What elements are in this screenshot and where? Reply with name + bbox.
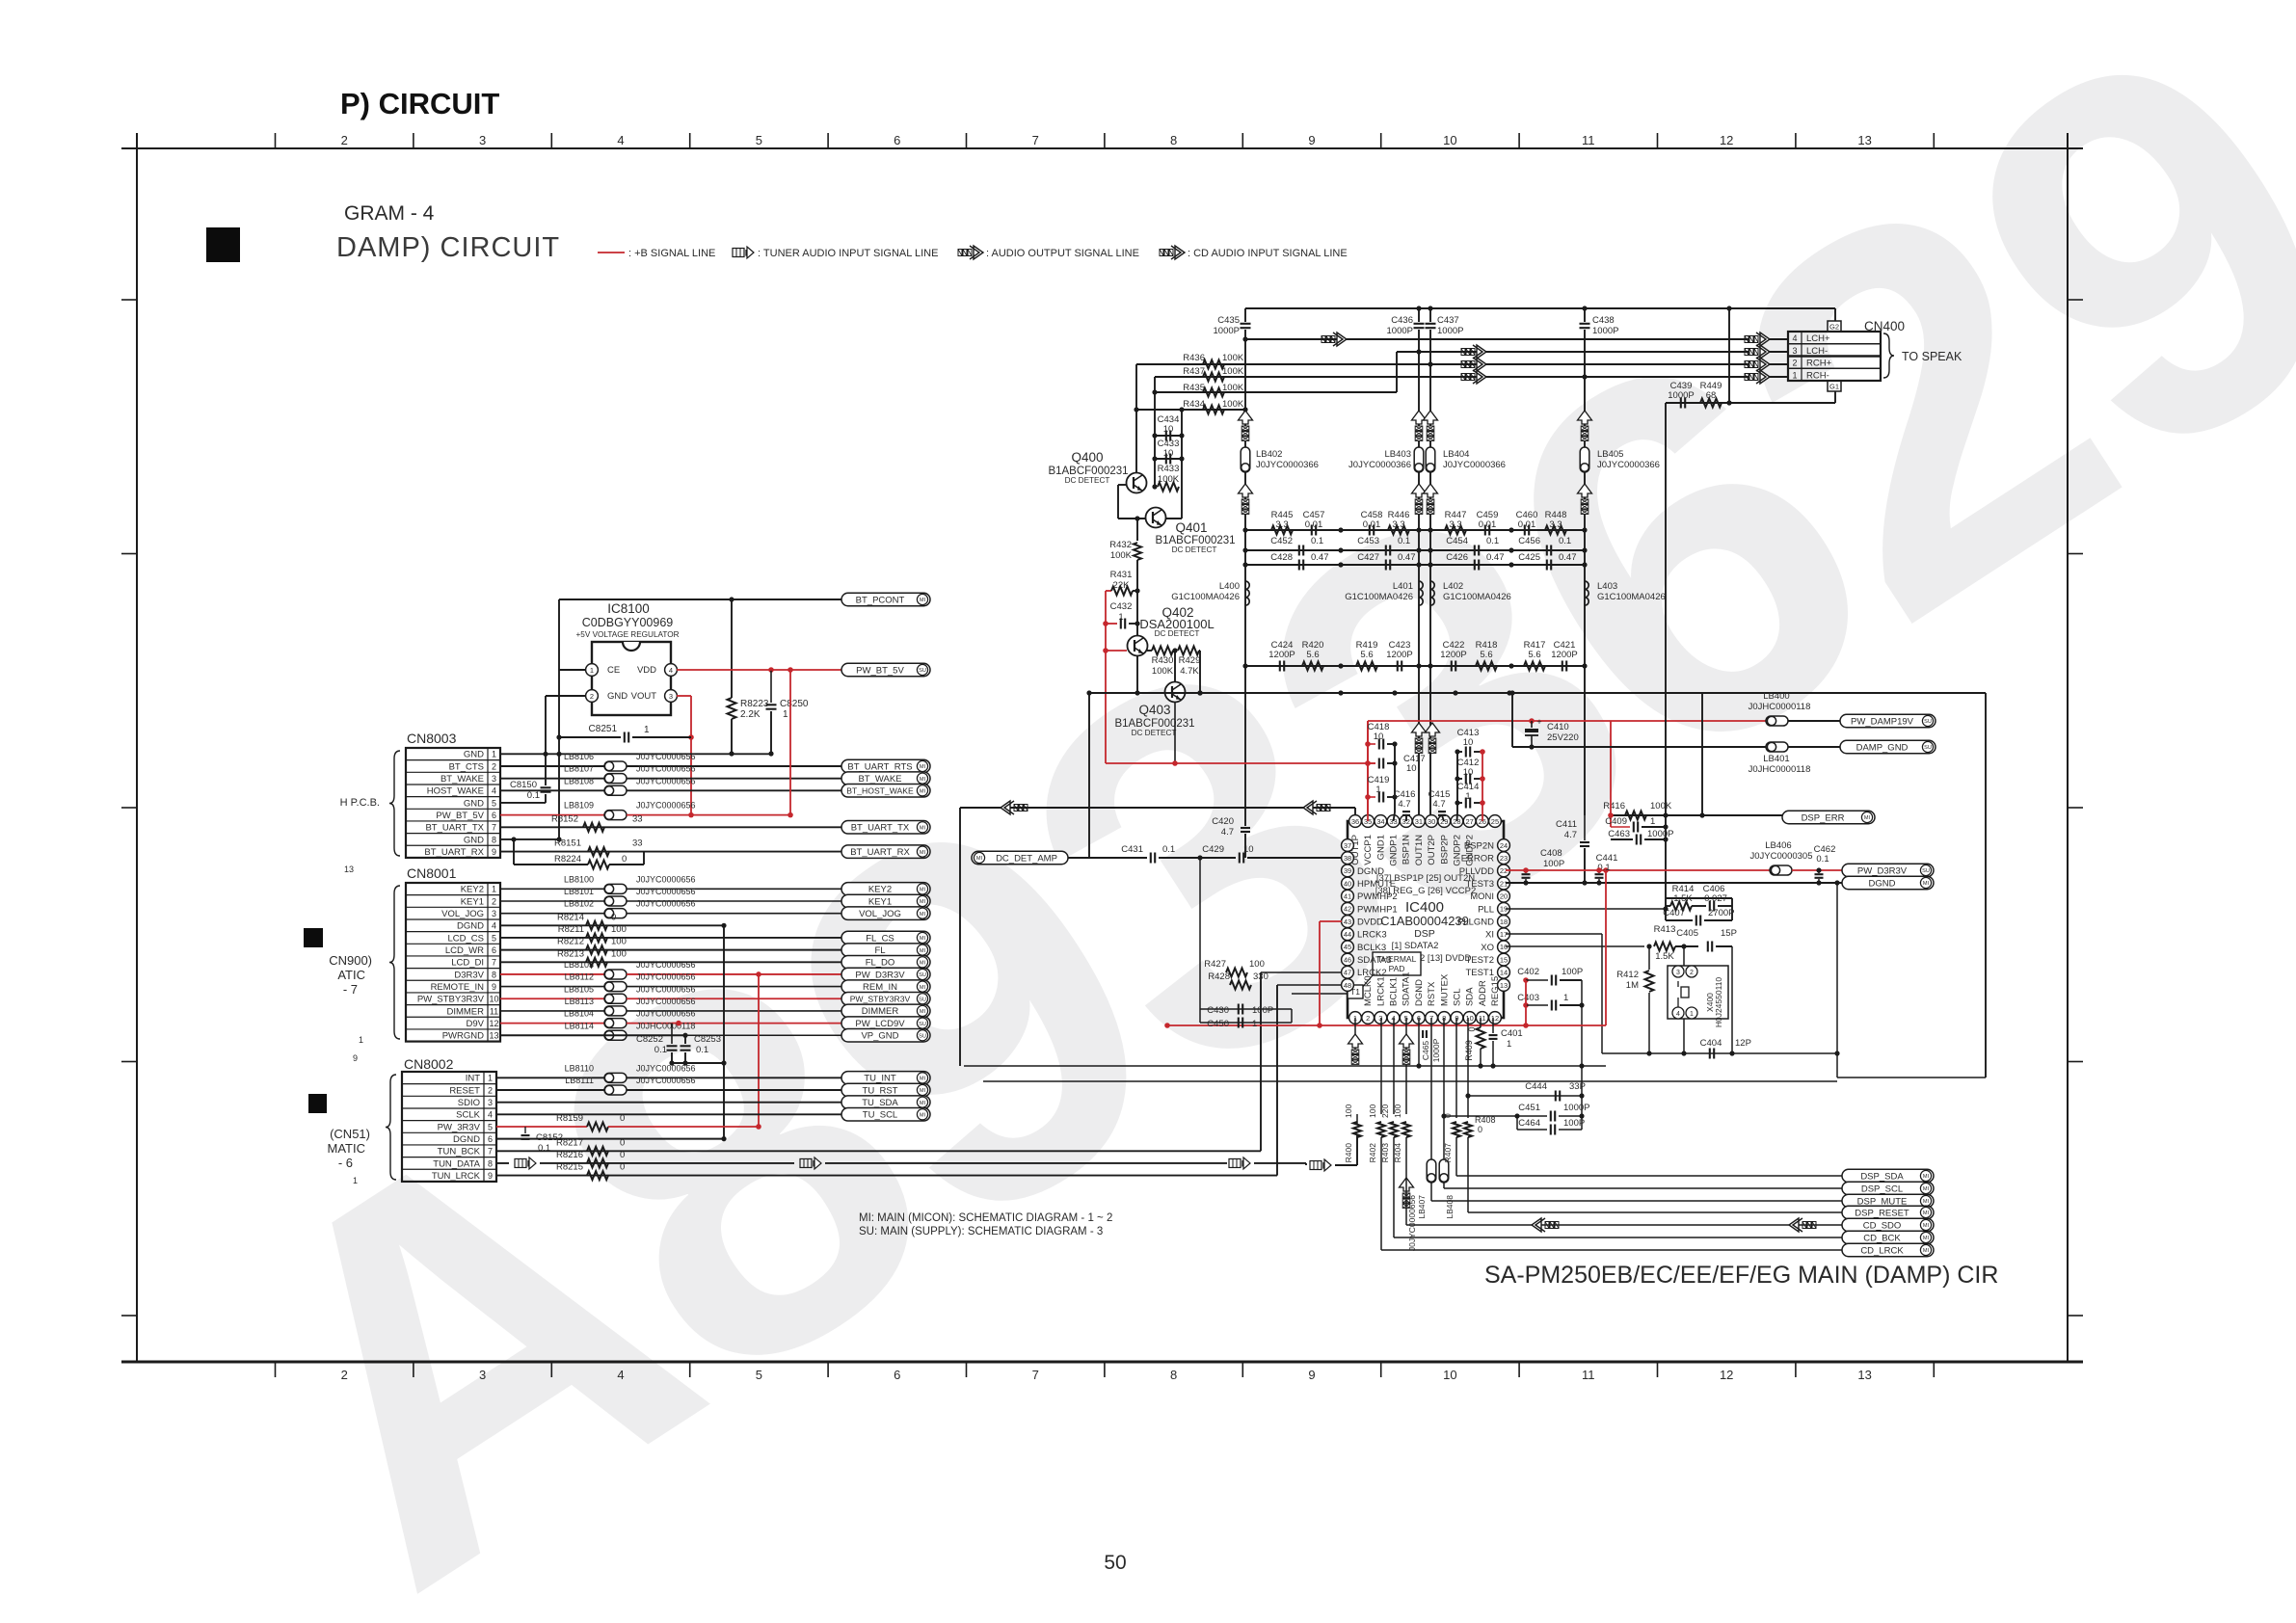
svg-text:DIMMER: DIMMER — [446, 1006, 484, 1017]
svg-text:0.01: 0.01 — [1518, 519, 1536, 530]
svg-text:0: 0 — [611, 912, 616, 922]
svg-text:J0JYC0000656: J0JYC0000656 — [636, 997, 696, 1006]
long bus y1122 — [983, 1080, 1837, 1082]
inductor LB402 — [1241, 447, 1250, 472]
gnd col x1512 — [1456, 752, 1458, 812]
svg-text:PW_STBY3R3V: PW_STBY3R3V — [417, 995, 485, 1005]
red junction D9V — [676, 1021, 681, 1026]
resistor R8224 0 — [513, 839, 515, 865]
svg-text:C403: C403 — [1517, 993, 1539, 1003]
svg-text:C435: C435 — [1217, 315, 1240, 326]
svg-text:C436: C436 — [1391, 315, 1413, 326]
svg-text:100P: 100P — [1562, 967, 1583, 977]
svg-text:3: 3 — [492, 774, 496, 784]
svg-text:100: 100 — [1368, 1104, 1377, 1118]
svg-text:100K: 100K — [1110, 550, 1133, 561]
svg-text:2: 2 — [492, 761, 496, 771]
svg-text:27: 27 — [1465, 817, 1473, 826]
svg-text:8: 8 — [1170, 133, 1177, 147]
svg-text:11: 11 — [1582, 1368, 1595, 1382]
capacitor C463 1000P — [1611, 838, 1633, 840]
svg-text:MI: MI — [920, 1009, 926, 1015]
svg-text:FL_CS: FL_CS — [866, 933, 894, 944]
svg-text:4.7K: 4.7K — [1180, 666, 1199, 677]
svg-text:0.47: 0.47 — [1559, 552, 1577, 563]
svg-text:J0JYC0000656: J0JYC0000656 — [636, 1009, 696, 1019]
tuner input icon mid — [800, 1158, 812, 1167]
resistor R402 100 — [1377, 1122, 1385, 1137]
wire CN400 G2 to bus — [1834, 308, 1836, 321]
svg-text:: AUDIO OUTPUT SIGNAL LINE: : AUDIO OUTPUT SIGNAL LINE — [986, 248, 1139, 259]
svg-text:0.1: 0.1 — [1559, 536, 1571, 546]
svg-text:40: 40 — [1344, 879, 1351, 888]
svg-text:HPMUTE: HPMUTE — [1357, 879, 1396, 890]
svg-text:FL: FL — [874, 945, 885, 956]
svg-text:20: 20 — [1500, 892, 1508, 901]
tuner input icon third — [1229, 1158, 1241, 1167]
svg-text:100: 100 — [1249, 959, 1265, 970]
svg-text:INT: INT — [466, 1074, 481, 1084]
audio arrows mid rows — [1461, 349, 1465, 356]
svg-text:TEST3: TEST3 — [1465, 879, 1494, 890]
svg-text:1: 1 — [1375, 785, 1380, 795]
svg-text:1: 1 — [1507, 1039, 1511, 1050]
IC400 pin 22 — [1498, 865, 1510, 877]
svg-text:47: 47 — [1344, 969, 1351, 977]
svg-text:LB405: LB405 — [1597, 449, 1623, 460]
svg-text:DSP_ERR: DSP_ERR — [1802, 812, 1845, 823]
wire Q401 collector link — [1165, 518, 1182, 519]
pill PW_D3R3V — [1842, 864, 1934, 877]
svg-text:3: 3 — [488, 1098, 493, 1107]
svg-text:1M: 1M — [1626, 980, 1639, 991]
svg-text:10: 10 — [1243, 844, 1254, 855]
svg-text:MI: MI — [920, 899, 926, 905]
svg-text:LB8109: LB8109 — [564, 801, 594, 811]
svg-text:LB407: LB407 — [1417, 1195, 1427, 1219]
arrow icons col 1472/1484 — [1412, 411, 1427, 424]
capacitor C435 1000P — [1244, 308, 1246, 322]
svg-text:RCH-: RCH- — [1806, 370, 1829, 381]
svg-text:DGND: DGND — [1869, 878, 1896, 889]
pill DAMP_GND — [1840, 740, 1936, 754]
IC400 pin 46 — [1342, 953, 1354, 966]
capacitor C452 0.1 row — [1245, 549, 1419, 551]
svg-text:LB400: LB400 — [1763, 691, 1789, 702]
wire CN8003 pin5 GND — [500, 802, 546, 804]
svg-text:6: 6 — [894, 1368, 900, 1382]
svg-text:3: 3 — [479, 1368, 486, 1382]
bottom fan wires to pills — [1455, 1137, 1457, 1176]
svg-text:C438: C438 — [1592, 315, 1615, 326]
svg-text:PW_D3R3V: PW_D3R3V — [855, 970, 905, 980]
svg-text:BSP1N: BSP1N — [1402, 835, 1412, 865]
wire Q400 base bracket — [1118, 484, 1126, 486]
svg-text:DGND: DGND — [453, 1134, 480, 1145]
capacitor C8150 0.1 — [541, 786, 551, 788]
svg-text:C464: C464 — [1518, 1118, 1540, 1129]
wire CN8001 row 1 — [500, 888, 604, 890]
svg-text:1200P: 1200P — [1268, 650, 1295, 660]
svg-text:PLLGND: PLLGND — [1457, 917, 1494, 927]
capacitor C8253 0.1 — [684, 1035, 686, 1044]
inductor LB404 — [1426, 447, 1435, 472]
resistor R429 4.7K — [1178, 647, 1199, 655]
svg-text:MI: MAIN (MICON): SCHEMATIC DI: MI: MAIN (MICON): SCHEMATIC DIAGRAM - 1 … — [859, 1212, 1112, 1224]
svg-text:J0JYC0000656: J0JYC0000656 — [636, 1076, 696, 1085]
svg-text:LB8113: LB8113 — [565, 997, 594, 1006]
pill BT_HOST_WAKE — [841, 785, 930, 798]
wire TUN_BCK row — [496, 1150, 1261, 1152]
riser left of OUT line — [959, 808, 961, 1066]
svg-text:LCH-: LCH- — [1806, 346, 1828, 357]
thermal pad box — [1373, 952, 1421, 975]
svg-text:9: 9 — [488, 1171, 493, 1181]
pill BT_UART_RX — [841, 845, 930, 859]
svg-text:DAMP) CIRCUIT: DAMP) CIRCUIT — [336, 232, 560, 263]
svg-text:L402: L402 — [1443, 581, 1463, 592]
svg-text:C454: C454 — [1446, 536, 1468, 546]
svg-text:0.01: 0.01 — [1363, 519, 1381, 530]
pill TU_RST — [841, 1083, 930, 1097]
svg-text:XI: XI — [1485, 930, 1494, 941]
svg-text:R433: R433 — [1158, 464, 1180, 474]
svg-text:DSP: DSP — [1414, 928, 1435, 940]
red vertical Q402 base feed — [1105, 591, 1107, 763]
svg-text:TUN_LRCK: TUN_LRCK — [432, 1171, 481, 1182]
svg-text:1: 1 — [488, 1074, 493, 1083]
IC400 pin 42 — [1342, 903, 1354, 916]
arrow icons col 1292 — [1239, 411, 1253, 424]
IC400 pin 7 — [1426, 1012, 1438, 1024]
svg-text:CE: CE — [607, 665, 620, 676]
svg-text:LB8101: LB8101 — [564, 887, 594, 896]
svg-text:1: 1 — [1563, 993, 1568, 1003]
svg-text:3.3: 3.3 — [1449, 519, 1461, 530]
svg-text:LB8110: LB8110 — [565, 1063, 594, 1073]
svg-text:0: 0 — [620, 1113, 625, 1124]
svg-text:0.01: 0.01 — [1305, 519, 1323, 530]
svg-text:PWMHP1: PWMHP1 — [1357, 904, 1398, 915]
svg-text:DC DETECT: DC DETECT — [1065, 476, 1110, 485]
svg-text:7: 7 — [1032, 133, 1039, 147]
svg-text:J0JYC0000366: J0JYC0000366 — [1443, 460, 1506, 470]
IC400 pin 40 — [1342, 877, 1354, 890]
legend tuner audio input icon — [733, 249, 744, 257]
svg-text:4.7: 4.7 — [1398, 799, 1410, 810]
svg-text:0.01: 0.01 — [1479, 519, 1497, 530]
inductor LB8101 — [604, 896, 627, 906]
black square marker 2 — [304, 928, 323, 947]
svg-text:LCH+: LCH+ — [1806, 333, 1830, 344]
svg-text:C450: C450 — [1207, 1019, 1229, 1029]
svg-text:R436: R436 — [1183, 353, 1205, 363]
capacitor C8152 0.1 — [524, 1127, 526, 1133]
red col x1583 — [1525, 980, 1527, 1025]
wire Q402 output to bus — [1199, 651, 1201, 693]
svg-text:CD_SDO: CD_SDO — [1863, 1220, 1902, 1231]
connector CN400 table — [1788, 332, 1881, 381]
svg-text:MI: MI — [920, 960, 926, 966]
red rail into VCCP1 — [1367, 721, 1369, 821]
svg-text:C426: C426 — [1446, 552, 1468, 563]
svg-text:PW_BT_5V: PW_BT_5V — [436, 811, 484, 821]
svg-text:25: 25 — [1491, 817, 1499, 826]
svg-text:3: 3 — [1676, 970, 1680, 976]
svg-text:2: 2 — [590, 692, 594, 701]
svg-text:Q400: Q400 — [1071, 450, 1103, 465]
inductor L401 G1C100MA0426 — [1419, 581, 1423, 605]
svg-text:0.47: 0.47 — [1486, 552, 1505, 563]
pill CD_LRCK — [1842, 1243, 1934, 1257]
svg-text:GND: GND — [464, 835, 484, 845]
IC400 pin 4 — [1387, 1012, 1400, 1024]
resistor R413 1.5K — [1654, 943, 1675, 951]
IC400 pin 39 — [1342, 865, 1354, 877]
svg-text:0: 0 — [1478, 1125, 1482, 1134]
IC400 pin 14 — [1498, 966, 1510, 978]
svg-text:39: 39 — [1344, 866, 1351, 875]
svg-text:GND1: GND1 — [1375, 835, 1386, 860]
svg-text:C429: C429 — [1202, 844, 1224, 855]
IC8100 +5V voltage regulator block — [592, 642, 671, 715]
filter row C458 0.01 / R446 3.3 — [1341, 529, 1419, 531]
svg-text:MI: MI — [920, 598, 926, 603]
svg-text:MUTEX: MUTEX — [1439, 973, 1450, 1006]
svg-text:29: 29 — [1440, 817, 1448, 826]
svg-text:1: 1 — [492, 885, 496, 894]
wire Q400 collector riser x1179 — [1135, 364, 1137, 473]
svg-text:C409: C409 — [1605, 816, 1627, 827]
riser TUN_LRCK — [1276, 985, 1278, 1176]
svg-text:VP_GND: VP_GND — [861, 1031, 898, 1042]
capacitor C427 0.47 — [1385, 560, 1387, 571]
wire CN8003 pin1 GND bus — [500, 753, 771, 755]
wire CN8001 row 9 — [500, 986, 604, 988]
IC400 pin 28 — [1451, 815, 1463, 828]
svg-text:1: 1 — [1650, 816, 1655, 827]
svg-text:LB8106: LB8106 — [564, 752, 594, 761]
IC400 pin 11 — [1476, 1012, 1488, 1024]
svg-text:15P: 15P — [1721, 928, 1737, 939]
svg-text:0.47: 0.47 — [1311, 552, 1329, 563]
svg-text:LB8100: LB8100 — [564, 874, 594, 884]
svg-text:R428: R428 — [1208, 971, 1230, 982]
svg-text:0.1: 0.1 — [696, 1045, 708, 1055]
svg-text:9: 9 — [492, 982, 496, 992]
resistor R427 100 — [1261, 971, 1342, 973]
svg-text:5: 5 — [492, 933, 496, 943]
svg-text:37: 37 — [1344, 841, 1351, 850]
svg-text:12: 12 — [489, 1019, 498, 1028]
svg-text:MI: MI — [1923, 1211, 1930, 1216]
svg-text:43: 43 — [1344, 918, 1351, 926]
svg-text:C431: C431 — [1121, 844, 1143, 855]
svg-text:TU_SDA: TU_SDA — [862, 1098, 898, 1108]
IC400 pin 38 — [1342, 852, 1354, 865]
resistor R8215 0 — [587, 1171, 608, 1180]
svg-text:0: 0 — [620, 1150, 625, 1160]
pill FL — [841, 944, 930, 957]
IC8100 pin 3 VOUT — [665, 690, 678, 703]
red Q402 emitter lead — [1106, 650, 1127, 652]
resistor R449 68 — [1700, 399, 1722, 408]
svg-text:50: 50 — [1104, 1552, 1126, 1574]
svg-text:MI: MI — [1923, 1199, 1930, 1205]
svg-text:PW_LCD9V: PW_LCD9V — [855, 1019, 905, 1029]
pill TU_SCL — [841, 1108, 930, 1122]
svg-text:LB8102: LB8102 — [564, 899, 594, 909]
wire XO row — [1506, 945, 1644, 947]
svg-text:J0JYC0000656: J0JYC0000656 — [636, 776, 696, 785]
svg-text:100: 100 — [1393, 1104, 1402, 1118]
pill PW_D3R3V — [841, 968, 930, 981]
svg-text:R416: R416 — [1603, 801, 1625, 811]
svg-text:0: 0 — [620, 1162, 625, 1173]
svg-text:100K: 100K — [1222, 353, 1244, 363]
svg-text:DGND: DGND — [1414, 979, 1425, 1006]
svg-text:C0DBGYY00969: C0DBGYY00969 — [582, 616, 674, 629]
pill CD_BCK — [1842, 1231, 1934, 1244]
svg-text:D3R3V: D3R3V — [454, 970, 484, 980]
svg-text:G1C100MA0426: G1C100MA0426 — [1171, 592, 1240, 602]
pill BT_PCONT — [841, 593, 930, 606]
filter row C460 0.01 / R448 3.3 — [1511, 529, 1585, 531]
wire CN8001 PWRGND row — [500, 1034, 685, 1036]
red +B line y792 to C417 — [1106, 762, 1375, 764]
svg-text:CD_BCK: CD_BCK — [1863, 1233, 1901, 1243]
wire TUN_DATA row — [496, 1162, 509, 1164]
svg-text:C452: C452 — [1270, 536, 1293, 546]
svg-text:RCH+: RCH+ — [1806, 359, 1832, 369]
capacitor C434 10 — [1155, 435, 1182, 437]
svg-text:[1] SDATA2: [1] SDATA2 — [1392, 941, 1439, 951]
svg-text:PW_BT_5V: PW_BT_5V — [856, 665, 904, 676]
IC400 pin 16 — [1498, 941, 1510, 953]
pill TU_SDA — [841, 1096, 930, 1109]
svg-text:1000P: 1000P — [1387, 326, 1413, 336]
red col x1538 VCCP2 — [1482, 752, 1483, 821]
svg-text:TO SPEAK: TO SPEAK — [1902, 350, 1962, 363]
svg-text:J0JYC0000656: J0JYC0000656 — [636, 801, 696, 811]
capacitor C439 1000P — [1680, 398, 1682, 409]
svg-text:0.1: 0.1 — [1816, 854, 1829, 865]
wire OUT1P arrow row — [960, 807, 1355, 809]
tuner icon at DSP input — [1310, 1161, 1322, 1170]
svg-text:1200P: 1200P — [1440, 650, 1466, 660]
svg-text:(CN51): (CN51) — [330, 1127, 370, 1141]
wire DSP_RESET — [1467, 1137, 1469, 1212]
svg-text:DVDD: DVDD — [1357, 917, 1383, 927]
svg-text:1200P: 1200P — [1386, 650, 1412, 660]
black square marker 3 — [308, 1094, 327, 1113]
svg-text:G1C100MA0426: G1C100MA0426 — [1345, 592, 1413, 602]
IC400 pin 26 — [1476, 815, 1488, 828]
svg-text:C8251: C8251 — [589, 724, 618, 734]
svg-text:C408: C408 — [1540, 848, 1562, 859]
svg-text:1: 1 — [1252, 1019, 1257, 1029]
pill REM_IN — [841, 980, 930, 994]
svg-text:D9V: D9V — [467, 1019, 485, 1029]
IC400 pin 27 — [1463, 815, 1476, 828]
speaker line LCH- — [1397, 351, 1749, 353]
resistor R8217 0 — [587, 1147, 608, 1156]
svg-text:30: 30 — [1428, 817, 1435, 826]
inductor L403 G1C100MA0426 — [1585, 581, 1589, 605]
svg-text:10: 10 — [1463, 767, 1474, 778]
svg-text:C451: C451 — [1518, 1103, 1540, 1113]
svg-text:6: 6 — [894, 133, 900, 147]
svg-text:MI: MI — [920, 1101, 926, 1106]
svg-text:42: 42 — [1344, 905, 1351, 914]
svg-text:100K: 100K — [1222, 399, 1244, 410]
svg-text:18: 18 — [1500, 918, 1508, 926]
svg-text:R434: R434 — [1183, 399, 1205, 410]
svg-text:R8212: R8212 — [557, 937, 584, 947]
capacitor C418 10 — [1365, 741, 1371, 747]
transistor Q401 — [1146, 508, 1166, 528]
wire VDD to PW_BT_5V pill (red +B) — [677, 669, 841, 671]
inductor L402 G1C100MA0426 — [1430, 581, 1434, 605]
IC400 pin 1 — [1349, 1012, 1362, 1024]
svg-text:38: 38 — [1344, 854, 1351, 863]
svg-text:3.3: 3.3 — [1549, 519, 1562, 530]
pill DSP_SCL — [1842, 1182, 1934, 1195]
resistor R414 1.5K / C406 parallel box — [1666, 897, 1732, 899]
svg-text:R429: R429 — [1179, 655, 1201, 666]
connector CN400 G2 box — [1828, 321, 1841, 332]
wire CN8001 row 13 — [500, 1034, 604, 1036]
svg-text:0: 0 — [622, 854, 627, 865]
svg-text:1: 1 — [1690, 1011, 1694, 1018]
svg-text:ADDR: ADDR — [1478, 980, 1488, 1006]
zobel row R417 5.6 / C421 1200P — [1511, 665, 1585, 667]
svg-text:R8215: R8215 — [556, 1162, 583, 1173]
svg-text:31: 31 — [1415, 817, 1423, 826]
inductor LB400 — [1766, 716, 1788, 726]
svg-text:TUN_BCK: TUN_BCK — [438, 1147, 481, 1157]
wire Q403 base riser — [1174, 651, 1176, 682]
inductor LB406 — [1770, 865, 1792, 875]
svg-text:SDA: SDA — [1465, 987, 1476, 1006]
svg-text:VOL_JOG: VOL_JOG — [441, 909, 484, 919]
svg-text:SDATA1: SDATA1 — [1402, 971, 1412, 1006]
capacitor C426 0.47 row — [1419, 564, 1585, 566]
red DVDD rail bottom — [1320, 920, 1342, 922]
svg-text:R8213: R8213 — [557, 948, 584, 959]
wire x1226 vertical — [1181, 410, 1183, 519]
svg-text:J0JYC0000656: J0JYC0000656 — [636, 984, 696, 994]
svg-text:C405: C405 — [1676, 928, 1698, 939]
svg-text:MI: MI — [920, 1077, 926, 1082]
svg-text:0.47: 0.47 — [1398, 552, 1416, 563]
svg-text:C8150: C8150 — [510, 780, 537, 790]
svg-text:45: 45 — [1344, 943, 1351, 951]
svg-text:MI: MI — [920, 1088, 926, 1094]
IC400 pin 2 — [1362, 1012, 1375, 1024]
svg-text:MI: MI — [1923, 1223, 1930, 1229]
svg-text:GND: GND — [464, 750, 484, 760]
wire CN8003 pin6 PW_BT_5V (red) — [500, 814, 604, 816]
wire CN8001 row 12 — [500, 1023, 604, 1024]
inductor LB8100 — [604, 884, 627, 893]
svg-text:10: 10 — [1443, 1368, 1456, 1382]
vertical DGND bus x751 — [723, 925, 725, 1139]
svg-text:VOUT: VOUT — [631, 691, 657, 702]
svg-text:LB408: LB408 — [1445, 1195, 1455, 1219]
IC400 pin 5 — [1400, 1012, 1412, 1024]
svg-text:G1C100MA0426: G1C100MA0426 — [1597, 592, 1666, 602]
